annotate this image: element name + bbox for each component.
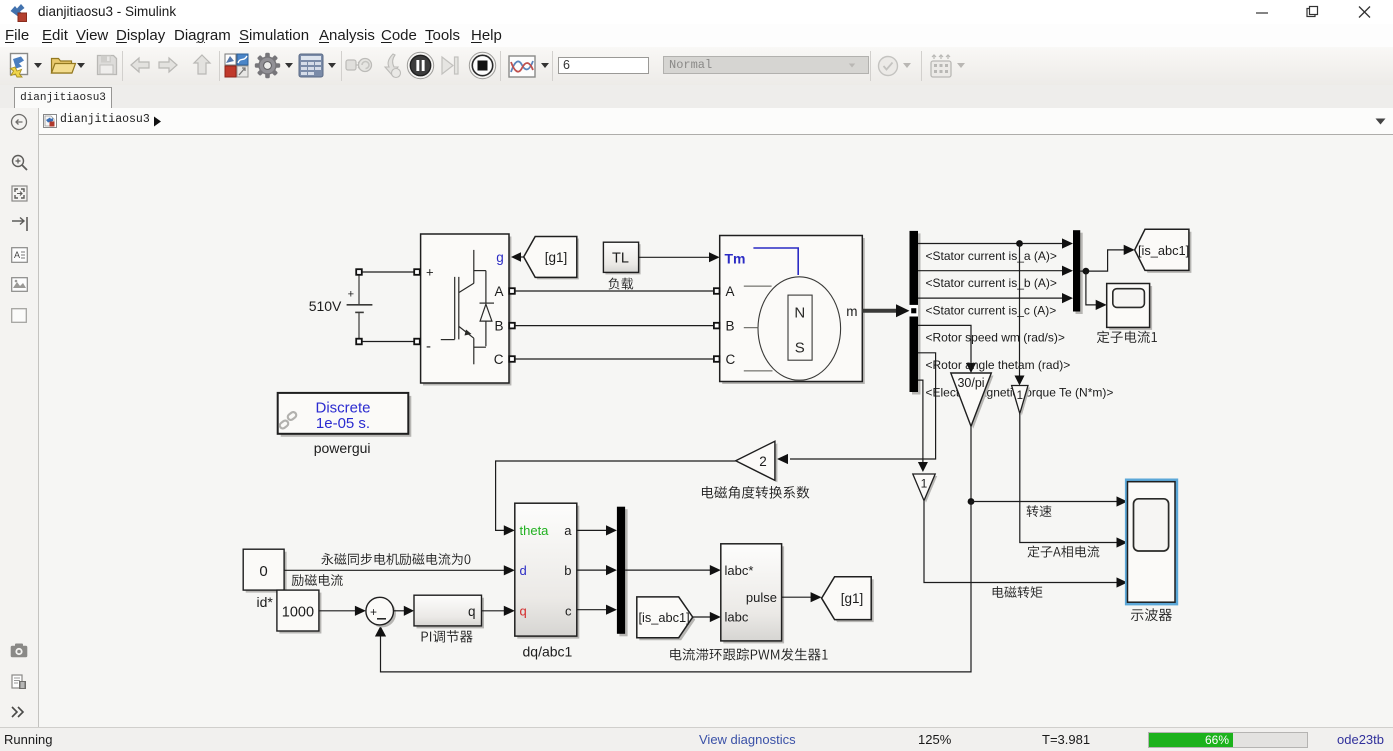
arrowhead into sum bottom (375, 626, 386, 637)
wire branch down to scope1 (1086, 271, 1099, 305)
svg-text:dq/abc1: dq/abc1 (523, 644, 573, 660)
From tag [g1] top (524, 237, 579, 280)
arrowhead into q (504, 606, 515, 616)
svg-text:powergui: powergui (314, 440, 371, 456)
svg-text:2: 2 (759, 454, 767, 469)
arrowhead a into mux (606, 525, 617, 535)
forward arrow disabled (158, 55, 178, 75)
wire DC- to inverter - (362, 341, 414, 343)
wire pulse to [g1] (782, 596, 814, 598)
motor magnet rectangle (788, 295, 812, 360)
svg-text:S: S (795, 340, 805, 357)
branch dot on is_a (1016, 240, 1023, 247)
Goto tag [is_abc1] upper (1135, 229, 1192, 273)
sum block (366, 597, 396, 627)
motor winding stub A (744, 285, 772, 287)
label PI调节器 (422, 630, 473, 642)
svg-text:A: A (14, 250, 20, 260)
svg-text:1: 1 (1017, 390, 1023, 402)
arrowhead into sum (355, 606, 366, 616)
arrowhead into gain 2 (777, 454, 788, 464)
constant block TL (603, 242, 640, 274)
check circle disabled (877, 55, 899, 77)
dq/abc1 transform block (515, 503, 580, 638)
label 定子电流1 (1097, 331, 1157, 343)
arrowhead into labc* (710, 565, 721, 575)
wire 30/pi output down (970, 426, 972, 501)
svg-text:<Stator current is_b (A)>: <Stator current is_b (A)> (926, 276, 1057, 290)
arrowhead into gain 1b (918, 462, 928, 472)
Goto tag [g1] lower (822, 577, 874, 622)
bus selector input square (911, 308, 916, 313)
svg-text:[g1]: [g1] (545, 250, 568, 265)
wire bus out is_c (918, 297, 1064, 299)
DC voltage source 510V (347, 275, 373, 340)
svg-text:g: g (496, 250, 504, 265)
branch dot speed (968, 498, 975, 505)
svg-text:labc: labc (725, 610, 749, 625)
svg-text:<Rotor speed wm (rad/s)>: <Rotor speed wm (rad/s)> (926, 331, 1065, 345)
svg-text:510V: 510V (309, 298, 342, 314)
wire gain 2 output to dq theta (496, 461, 736, 530)
motor port square C (714, 356, 720, 362)
disabled run-back icon (383, 53, 403, 79)
IGBT diode triangle (480, 304, 492, 321)
new model button (7, 52, 34, 79)
svg-text:pulse: pulse (746, 590, 777, 605)
svg-text:m: m (846, 304, 857, 319)
arrowhead is_c into mux (1062, 293, 1073, 303)
DC source port square top (356, 269, 362, 275)
svg-text:N: N (794, 305, 805, 322)
arrowhead into theta (504, 525, 515, 535)
wire dq b to mux (577, 569, 609, 571)
wire inverter B to motor B (515, 325, 714, 327)
label 电流滞环跟踪PWM发生器1 (670, 648, 827, 660)
scope2 selected (blue border) (1125, 479, 1178, 606)
wire bus out torque Te (918, 380, 923, 466)
svg-text:[g1]: [g1] (841, 591, 864, 606)
arrowhead into 30/pi gain (966, 363, 976, 373)
disabled connect icon (345, 55, 373, 75)
constant block 0 (243, 549, 286, 592)
label 永磁同步电机励磁电流为0 (321, 553, 470, 565)
constant block 1000 (277, 590, 322, 633)
gain 1b (913, 474, 937, 503)
gear (254, 52, 281, 79)
svg-text:+: + (348, 288, 354, 300)
svg-text:A: A (726, 284, 735, 299)
mux bar lower (617, 507, 628, 637)
motor winding stub C (744, 370, 773, 372)
label 定子A相电流 (1027, 546, 1099, 558)
svg-text:<Stator current is_a (A)>: <Stator current is_a (A)> (926, 249, 1057, 263)
label 转速 (1027, 505, 1052, 517)
svg-text:-: - (426, 338, 431, 355)
powergui block (278, 393, 412, 437)
wire inverter A to motor A (515, 290, 714, 292)
svg-text:id*: id* (257, 594, 274, 610)
DC source port square bottom (356, 339, 362, 345)
stop time field (558, 57, 649, 74)
label 电磁角度转换系数 (702, 486, 809, 499)
arrowhead into g (511, 252, 521, 262)
label 励磁电流 (292, 574, 343, 586)
arrowhead is_b into mux (1062, 266, 1073, 276)
inverter output port square A (509, 288, 515, 294)
stop button (468, 51, 497, 80)
wire 0 to dq d input (284, 569, 507, 571)
gain 30/pi (951, 373, 994, 429)
IGBT emitter arrowhead (465, 330, 472, 336)
svg-text:1: 1 (921, 477, 928, 491)
arrowhead b into mux (606, 565, 617, 575)
inverter output port square B (509, 323, 515, 329)
label 电磁转矩 (993, 586, 1043, 598)
wire mux to PWM labc* (625, 569, 713, 571)
bus selector input notch (910, 305, 919, 317)
hide browser button (10, 113, 28, 131)
inverter IGBT icon (441, 250, 494, 364)
arrowhead into scope1 (1096, 300, 1107, 310)
motor rotor circle (758, 277, 841, 380)
wire dq a to mux (577, 529, 609, 531)
PMSM motor block (720, 236, 865, 385)
wire mux1 out to goto is_abc1 (1080, 250, 1127, 271)
mux bar upper (1073, 230, 1083, 314)
sim data inspector icon (508, 55, 536, 78)
bus wire m output (862, 309, 897, 313)
open button (50, 54, 76, 76)
inverter port square + (414, 269, 420, 275)
pause button (enabled) (406, 51, 435, 80)
svg-text:theta: theta (520, 523, 550, 538)
wire sum to PI (394, 610, 407, 612)
arrowhead into PI (404, 606, 414, 616)
bus selector bar (910, 231, 921, 395)
wire bus out rotor speed wm (918, 325, 971, 367)
svg-text:Discrete: Discrete (315, 400, 370, 417)
wire bus out is_a (918, 243, 1064, 245)
svg-text:a: a (564, 523, 572, 538)
wire gain 1b output to scope input 3 (924, 501, 1119, 583)
back arrow disabled (130, 55, 150, 75)
label 负载 (608, 278, 633, 290)
arrowhead into is_abc1 goto (1124, 245, 1135, 255)
motor winding stub B (744, 327, 759, 329)
wire TL to motor Tm (639, 256, 712, 258)
wire gain 1a output to scope input 2 (1020, 414, 1119, 543)
svg-text:+: + (426, 265, 434, 280)
powergui broken link icon (279, 411, 298, 430)
wire bus out rotor angle thetam (790, 353, 936, 459)
scope1 stator currents (1107, 284, 1152, 330)
svg-text:B: B (726, 318, 735, 333)
From tag [is_abc1] lower (637, 597, 695, 640)
save disabled (96, 54, 118, 76)
arrowhead into gain 1a (1015, 376, 1025, 386)
svg-text:1e-05 s.: 1e-05 s. (316, 415, 370, 432)
arrowhead scope input 1 (1117, 496, 1128, 506)
inverter output port square C (509, 356, 515, 362)
svg-text:q: q (468, 604, 476, 619)
svg-text:+: + (370, 605, 377, 619)
wire 1000 to sum (319, 610, 358, 612)
wire is_a branch down to gain 1a (1019, 244, 1021, 380)
wire inverter C to motor C (515, 358, 714, 360)
svg-text:B: B (494, 318, 503, 333)
motor port square B (714, 323, 720, 329)
arrowhead into [g1] goto (811, 592, 822, 602)
wire PI to dq q input (482, 610, 508, 612)
PI regulator block (414, 595, 484, 628)
svg-text:labc*: labc* (725, 563, 754, 578)
wire speed feedback down and left to sum (381, 502, 972, 672)
svg-text:Tm: Tm (725, 250, 746, 266)
library browser icon (224, 53, 249, 78)
table/refresh icon disabled (929, 53, 953, 79)
svg-text:[is_abc1]: [is_abc1] (1138, 243, 1189, 258)
arrowhead c into mux (606, 605, 617, 615)
svg-text:[is_abc1]: [is_abc1] (639, 610, 690, 625)
wire dq c to mux (577, 609, 609, 611)
arrowhead scope input 2 (1117, 537, 1128, 547)
inverter port square - (414, 339, 420, 345)
svg-text:d: d (520, 563, 527, 578)
wire [is_abc1] to PWM labc (693, 616, 713, 618)
label 示波器 (1131, 608, 1172, 621)
arrowhead scope input 3 (1117, 577, 1128, 587)
svg-text:C: C (494, 352, 504, 367)
branch dot mux1 out (1083, 268, 1090, 275)
svg-text:0: 0 (259, 563, 267, 580)
motor Tm blue wire (753, 248, 798, 275)
svg-text:C: C (726, 352, 736, 367)
svg-text:A: A (494, 284, 503, 299)
step forward disabled (440, 55, 460, 76)
model settings icon (298, 53, 324, 78)
wire DC+ to inverter + (362, 271, 414, 273)
arrowhead is_a into mux (1062, 238, 1073, 248)
svg-text:c: c (565, 604, 572, 619)
svg-text:30/pi: 30/pi (957, 376, 984, 390)
PWM generator block (721, 544, 784, 644)
svg-text:1000: 1000 (282, 605, 314, 621)
svg-text:<Stator current is_c (A)>: <Stator current is_c (A)> (926, 303, 1057, 317)
motor port square A (714, 288, 720, 294)
inverter (Universal Bridge) block (421, 234, 512, 386)
arrowhead into labc (710, 612, 721, 622)
arrowhead into Tm (709, 252, 720, 262)
gain 1a (1012, 386, 1030, 416)
svg-text:q: q (520, 604, 527, 619)
arrowhead into d (504, 565, 515, 575)
svg-text:<Rotor angle thetam (rad)>: <Rotor angle thetam (rad)> (926, 358, 1071, 372)
svg-text:b: b (564, 563, 571, 578)
wire bus out is_b (918, 270, 1064, 272)
Normal combo disabled (663, 56, 869, 74)
wire [g1] to inverter g input (513, 256, 524, 258)
arrowhead into bus selector (896, 304, 910, 317)
gain 2 (angle conversion) (736, 441, 778, 482)
svg-text:TL: TL (612, 251, 629, 267)
up arrow disabled (192, 54, 212, 76)
wire speed to scope input 1 (971, 501, 1119, 503)
